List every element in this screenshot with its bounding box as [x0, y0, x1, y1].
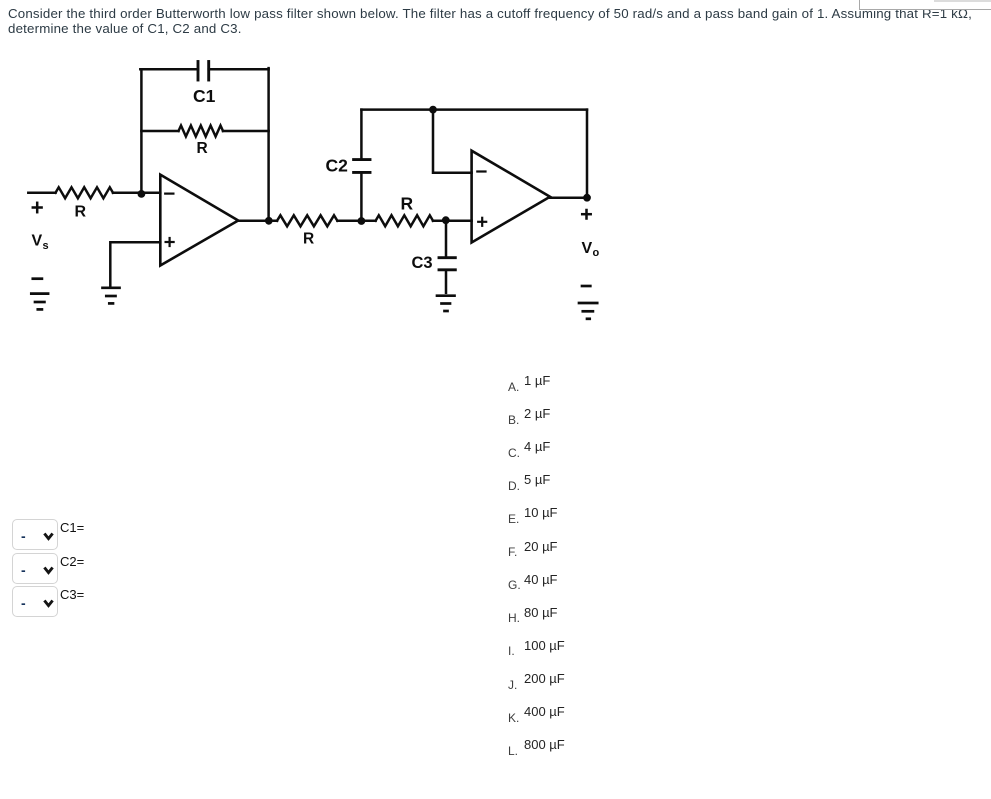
capacitor C2	[354, 160, 370, 173]
op-amp U2	[472, 151, 550, 243]
svg-text:C3: C3	[412, 254, 433, 272]
question text	[8, 6, 972, 36]
svg-text:R: R	[75, 204, 87, 221]
node E (rail junction)	[429, 106, 437, 114]
node C (between resistors / C2 tap)	[358, 217, 366, 225]
svg-text:C1: C1	[193, 86, 216, 106]
label C1=	[60, 520, 84, 535]
svg-text:V: V	[582, 240, 593, 257]
capacitor C3	[439, 258, 455, 270]
wire C3 lower	[445, 270, 448, 293]
U2 plus input mark	[478, 218, 486, 226]
wire U1 output	[238, 220, 277, 223]
capacitor C1	[198, 62, 209, 81]
U1 plus input mark	[166, 238, 174, 246]
label + (Vs terminal)	[33, 203, 42, 212]
wire resistor to inverting input node	[113, 192, 160, 195]
resistor R (input series)	[56, 187, 114, 198]
wire feedback right vertical	[267, 68, 270, 221]
wire feedback left vertical	[140, 69, 143, 193]
wire rail right vertical to output	[586, 110, 589, 198]
dropdown select C1	[12, 519, 58, 550]
wire to node D	[433, 220, 472, 223]
wire C2 lower	[360, 173, 363, 221]
top right cut-off panel	[859, 0, 991, 10]
node D (U2 + input / C3 tap)	[442, 216, 450, 224]
svg-text:o: o	[593, 247, 600, 259]
wire U1 non-inverting input	[110, 242, 160, 286]
svg-text:s: s	[43, 240, 49, 252]
svg-text:R: R	[303, 231, 314, 248]
resistor R (second mid)	[376, 215, 433, 226]
wire C1 top branch left	[140, 68, 198, 71]
wire C3 upper	[445, 221, 448, 258]
ground (below C3)	[437, 296, 455, 311]
wire top feedback rail	[361, 108, 587, 111]
ground (Vs terminal)	[31, 279, 48, 310]
node F (output terminal)	[583, 194, 591, 202]
svg-text:V: V	[32, 233, 43, 250]
wire feedback R branch right	[223, 130, 269, 133]
node A (inverting input junction)	[138, 190, 146, 198]
wire U2 output	[550, 196, 587, 199]
wire C2 upper to top rail	[360, 110, 363, 160]
resistor R (first mid)	[277, 215, 337, 226]
label + (Vo terminal)	[582, 210, 591, 219]
op-amp U1	[160, 175, 238, 266]
node B (U1 output)	[265, 217, 273, 225]
wire feedback R branch left	[141, 130, 178, 133]
ground (Vo terminal)	[579, 286, 597, 319]
wire C1 top branch right	[209, 68, 269, 71]
svg-text:R: R	[197, 140, 208, 157]
ground (U1 + input)	[103, 288, 120, 304]
svg-text:C2: C2	[326, 156, 349, 176]
U2 minus input mark	[477, 170, 485, 172]
U1 minus input mark	[165, 193, 173, 195]
dropdown select C3	[12, 586, 58, 617]
resistor R (feedback)	[179, 126, 224, 137]
wire to node C	[337, 220, 375, 223]
dropdown select C2	[12, 553, 58, 584]
wire rail to U2 inverting input	[433, 110, 472, 173]
svg-text:R: R	[401, 194, 414, 214]
answers list	[508, 381, 519, 393]
label C2=	[60, 554, 84, 569]
label C3=	[60, 587, 84, 602]
wire input terminal to resistor R(in)	[28, 192, 55, 195]
